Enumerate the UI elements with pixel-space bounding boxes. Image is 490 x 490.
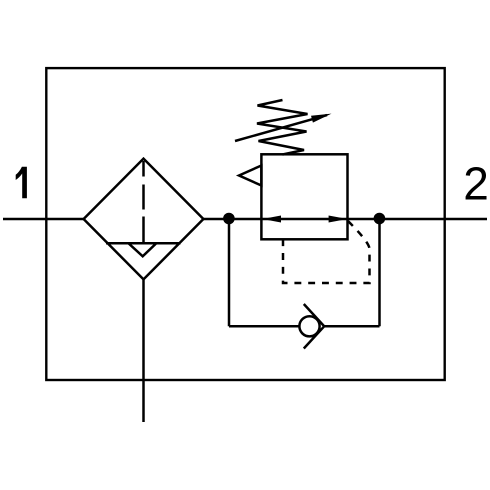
main flow line port 1 side (3, 218, 84, 221)
check valve seat (304, 304, 324, 349)
relief vent triangle (239, 166, 261, 186)
adjustment arrow shaft (235, 115, 327, 141)
pilot line (dashed) (283, 221, 370, 283)
regulator flow arrowhead left (262, 216, 281, 223)
separator baffle line (106, 242, 181, 245)
spring (adjustable) zigzag (257, 100, 308, 155)
filter F1 (diamond body) (84, 159, 204, 280)
bypass bottom right segment (324, 325, 379, 328)
regulator R1 body (261, 154, 347, 239)
bypass left riser (228, 219, 231, 326)
drain line (142, 279, 145, 422)
node A (left junction) (223, 213, 235, 225)
check valve V1 (ball circle) (299, 316, 319, 336)
bypass right riser (378, 219, 381, 326)
main flow line port 2 side (203, 218, 487, 221)
node B (right junction) (374, 213, 386, 225)
filter element (dashed) (142, 161, 145, 243)
water separator triangle (129, 243, 157, 256)
port 1 label (16, 167, 27, 199)
enclosure (assembly boundary) (46, 68, 444, 380)
bypass bottom left segment (229, 325, 300, 328)
svg-text:2: 2 (463, 158, 489, 210)
adjustment arrow head (311, 114, 332, 123)
regulator flow arrowhead right (329, 216, 348, 223)
